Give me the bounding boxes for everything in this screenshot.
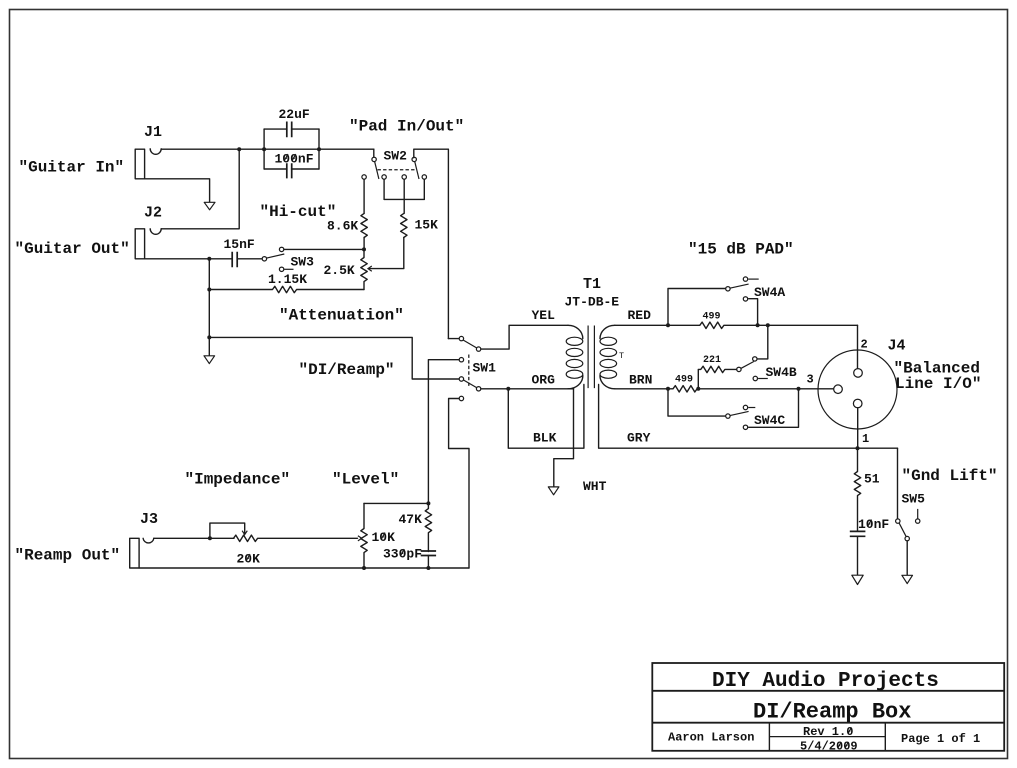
resistor 499 bottom [668,386,698,392]
resistor 499 top [668,322,858,328]
wire SW2 pole2 up over [414,149,449,338]
wire J3 tip line [154,537,234,539]
svg-text:"Guitar In": "Guitar In" [19,159,125,177]
node attenuation ground tap [207,335,211,339]
svg-text:"Gnd Lift": "Gnd Lift" [902,467,998,485]
wire pin1 down [857,408,859,448]
svg-text:Aaron Larson: Aaron Larson [668,731,754,745]
switch SW4A [726,277,759,301]
svg-text:"Guitar Out": "Guitar Out" [15,240,130,258]
capacitor 10nF [850,531,866,536]
wire RED up to SW4A [668,289,725,326]
svg-text:20K: 20K [237,552,261,567]
resistor 51 [854,448,860,531]
wire J1 sleeve to ground [145,179,210,203]
connector J4 XLR body [818,350,897,429]
ground J1 [204,202,215,210]
svg-text:Rev 1.0: Rev 1.0 [803,725,853,739]
wire BRN down to SW4C [668,389,725,416]
svg-text:1.15K: 1.15K [268,272,307,287]
node ORG junction [506,387,510,391]
jack J2 [135,229,161,259]
svg-text:SW2: SW2 [384,149,408,164]
capacitor 15nF [232,252,237,267]
wire SW2 bypass bus [384,198,424,200]
wire SW1 pole2 to ORG [481,388,574,390]
svg-text:"Attenuation": "Attenuation" [279,307,404,325]
svg-text:15nF: 15nF [224,237,255,252]
svg-text:51: 51 [864,472,880,487]
svg-text:Page 1 of 1: Page 1 of 1 [901,732,980,746]
node level top [426,501,430,505]
wire GRY long [599,385,898,449]
arrowhead 10K wiper [358,536,362,541]
svg-text:WHT: WHT [583,479,607,494]
svg-text:RED: RED [628,308,652,323]
wire padbox right edge [318,129,320,169]
svg-text:5/4/2009: 5/4/2009 [800,740,858,754]
svg-text:499: 499 [675,375,693,386]
capacitor 330pF [421,551,436,556]
switch SW4C [726,405,756,429]
wire gnd lift to SW5 [897,448,899,519]
svg-text:DIY Audio Projects: DIY Audio Projects [712,670,939,693]
wire 15nF to SW3 [238,258,262,260]
wire ground rail [139,567,469,569]
wire to SW2 pole1 [373,149,375,158]
svg-text:BLK: BLK [533,431,557,446]
svg-text:J3: J3 [140,511,158,528]
node 221 tap [696,387,700,391]
slashed zeros [246,154,871,748]
svg-text:YEL: YEL [532,308,556,323]
resistor 47K [425,503,431,551]
node BRN junction [666,387,670,391]
wire top line to pin2 [857,325,859,368]
resistor 221 [698,366,736,389]
svg-text:SW4A: SW4A [754,285,785,300]
potentiometer 2.5K [361,249,367,289]
svg-text:Line I/O": Line I/O" [895,375,981,393]
wire WHT to ground [554,389,574,487]
resistor 8.6K [361,213,367,237]
svg-text:22uF: 22uF [279,107,310,122]
transformer T1 primary [566,325,583,389]
switch SW3 [262,247,293,271]
ground SW5 [902,575,913,583]
svg-text:3: 3 [807,373,814,387]
wire SW1 throw4 to rail [449,399,469,569]
transformer T1 core [588,326,594,389]
wire J2 tip up to J1 tip [161,149,239,229]
dashed gang link SW1 [468,355,470,389]
svg-text:J2: J2 [144,205,162,222]
svg-text:"15 dB PAD": "15 dB PAD" [688,241,794,259]
ground WHT [548,487,559,495]
svg-text:J1: J1 [144,124,162,141]
dashed gang link SW2 [378,169,418,171]
node padbox left [262,147,266,151]
node J2 sleeve junction [207,257,211,261]
node 10K bottom [362,566,366,570]
svg-text:BRN: BRN [629,373,652,388]
capacitor 22uF [264,122,319,138]
resistor 15K [401,213,407,237]
svg-text:"Level": "Level" [332,471,399,489]
wire SW5 to ground [906,541,908,575]
svg-text:J4: J4 [888,338,906,355]
svg-text:SW4B: SW4B [766,365,797,380]
wire SW2 bypass left [383,179,385,199]
node 330pF bottom [426,566,430,570]
svg-text:GRY: GRY [627,431,651,446]
svg-text:1: 1 [862,432,869,446]
wire BLK loop [508,385,584,449]
svg-text:499: 499 [703,312,721,323]
svg-text:"Impedance": "Impedance" [185,471,291,489]
svg-text:221: 221 [703,355,721,366]
wire RED to pad [615,324,668,326]
wire ground to SW1 throw3 [209,337,459,379]
jack J1 [135,149,161,179]
wire SW4C throw2 link [749,389,799,428]
node pin1 gnd junction [856,446,860,450]
wire 330pF to rail [427,556,429,569]
wire padbox left edge [263,129,265,169]
wire BRN line to pin3 [698,388,833,390]
svg-text:SW3: SW3 [291,255,315,270]
node 8.6K bottom [362,247,366,251]
switch SW2 [362,157,427,179]
resistor 20K [234,535,358,541]
svg-text:330pF: 330pF [383,547,422,562]
capacitor 100nF [264,163,319,178]
svg-text:2: 2 [861,338,868,352]
wire SW4A throw2 to line [749,299,758,326]
resistor 1.15K [209,286,364,292]
node J3 tip junction [208,536,212,540]
arrowhead wiper 2.5K [368,266,372,271]
jack J3 [130,538,154,568]
pin 1 circle [853,399,862,408]
wire 10nF to ground [857,536,859,575]
node padbox right [317,147,321,151]
switch SW4B [737,357,768,381]
pin 2 circle [854,369,863,378]
svg-text:10nF: 10nF [858,517,889,532]
wire 8.6K bottom [363,237,365,249]
node SW4A bypass [756,323,760,327]
svg-text:"Reamp Out": "Reamp Out" [15,547,121,565]
wire J1 tip to node [161,148,374,150]
node J1 tip junction [237,147,241,151]
titleblock frame [652,663,1004,751]
svg-text:SW1: SW1 [473,361,497,376]
wire SW2 throw to 15K [403,179,405,213]
svg-text:DI/Reamp Box: DI/Reamp Box [753,700,911,725]
wire SW2 line to SW1 throw1 [448,338,459,340]
svg-text:10K: 10K [372,530,396,545]
svg-text:2.5K: 2.5K [324,263,355,278]
potentiometer 10K [361,503,367,568]
svg-text:"Pad In/Out": "Pad In/Out" [349,118,464,136]
svg-text:SW5: SW5 [902,492,926,507]
arrowhead 20K wiper [242,531,247,535]
node SW4B tap [766,323,770,327]
wire SW4B throw1 link [758,325,768,359]
wire 15K to wiper [368,237,403,268]
transformer T1 secondary [600,325,617,389]
svg-text:47K: 47K [399,512,423,527]
pin 3 circle [834,385,843,394]
wire 20K rheostat loop [210,523,245,538]
node SW4C bypass [797,387,801,391]
wire ground chain down [208,259,210,356]
svg-text:"DI/Reamp": "DI/Reamp" [299,361,395,379]
wire level node [364,502,428,504]
ground 10nF [852,575,863,584]
svg-text:T: T [619,351,624,361]
node RED junction [666,323,670,327]
wire J2 sleeve [145,258,232,260]
svg-text:15K: 15K [415,218,439,233]
switch SW5 [896,509,920,541]
svg-text:JT-DB-E: JT-DB-E [565,295,620,310]
wire SW2 bypass right [423,179,425,199]
ground attenuation [204,356,215,364]
wire SW3 throw to node [284,248,362,250]
svg-text:"Hi-cut": "Hi-cut" [260,203,337,221]
switch SW1 [459,336,481,400]
svg-text:ORG: ORG [532,373,556,388]
wire SW1 throw2 to level node [428,360,459,504]
wire SW1 pole1 to YEL [481,325,568,349]
wire SW2 throw to 8.6K [363,179,365,213]
wire BRN to pad [615,388,668,390]
svg-text:T1: T1 [583,276,601,293]
svg-text:SW4C: SW4C [754,413,785,428]
svg-text:100nF: 100nF [275,152,314,167]
node 1.15K tap [207,288,211,292]
